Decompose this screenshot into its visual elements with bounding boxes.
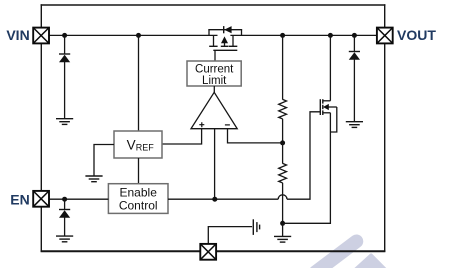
svg-text:EN: EN — [10, 192, 29, 208]
node enable net junction — [212, 197, 217, 202]
diode D2 body diode of Q1 — [224, 26, 232, 33]
outer boundary left border — [40, 4, 42, 252]
wire GND pin to internal ground — [208, 227, 252, 244]
wire Q1 gate to current limit — [214, 50, 216, 61]
pin VIN — [33, 28, 49, 44]
diode D1 (VIN clamp) — [59, 35, 70, 118]
resistor R2 — [279, 163, 287, 183]
ground (EN clamp) — [56, 236, 73, 242]
diode D4 (VOUT clamp) — [349, 35, 360, 121]
wire feedback node to R2 — [282, 143, 284, 164]
svg-text:VIN: VIN — [6, 27, 29, 43]
ground (internal, rotated) — [253, 219, 259, 235]
transistor Q2 discharge FET — [320, 99, 337, 132]
node Q2 source junction — [328, 33, 333, 38]
wire op-amp + input to VREF — [162, 129, 202, 144]
block U4 Enable Control — [108, 184, 168, 214]
wire op-amp - input to feedback node — [228, 129, 283, 143]
wire Q2 drain to ground node — [283, 113, 331, 224]
resistor R1 — [279, 99, 287, 119]
wire VREF to ground — [94, 145, 114, 176]
wire VOUT to R1 — [282, 35, 284, 99]
svg-text:V: V — [127, 138, 136, 153]
wire VIN rail (left segment to pass FET source) — [49, 34, 218, 36]
outer boundary bottom border — [41, 250, 386, 252]
wire VREF to enable control — [138, 158, 140, 184]
ground (VREF) — [85, 176, 102, 182]
wire VREF supply drop — [138, 35, 140, 131]
svg-text:REF: REF — [136, 143, 155, 153]
wire EN pin to enable control — [49, 198, 108, 200]
transistor Q1 pass PMOS — [208, 29, 242, 50]
pin EN — [33, 191, 49, 207]
outer boundary right border — [384, 4, 386, 252]
svg-text:Current: Current — [195, 64, 234, 76]
svg-text:VOUT: VOUT — [397, 27, 436, 43]
node VIN clamp junction — [62, 33, 67, 38]
node VOUT clamp junction — [352, 33, 357, 38]
wire current limit to op-amp apex — [213, 86, 215, 93]
node FB — [280, 140, 285, 145]
ground (VIN clamp) — [56, 119, 73, 125]
pin GND — [200, 244, 216, 260]
node R2 ground junction — [280, 221, 285, 226]
wire R2 to ground node — [282, 183, 284, 223]
pin VOUT — [377, 28, 393, 44]
ground (feedback string) — [274, 223, 291, 242]
wire Q2 source — [329, 35, 331, 100]
node EN clamp junction — [62, 197, 67, 202]
svg-text:Limit: Limit — [202, 75, 227, 87]
svg-text:Control: Control — [119, 198, 158, 212]
wire R1 to feedback node — [282, 119, 284, 143]
block U3 VREF — [114, 131, 162, 158]
diode D3 (EN clamp) — [59, 199, 70, 236]
wire op-amp bottom to enable net — [214, 129, 216, 200]
op-amp U2 error amplifier — [191, 92, 237, 128]
ground (VOUT clamp) — [346, 122, 363, 128]
outer boundary top border — [41, 4, 386, 6]
node feedback top junction — [280, 33, 285, 38]
block U1 Current Limit — [187, 61, 241, 87]
node VREF supply junction — [136, 33, 141, 38]
wire VIN rail (right segment from pass FET drain to VOUT) — [230, 34, 377, 36]
wire enable net to Q2 gate (with hop over feedback string) — [168, 112, 320, 199]
